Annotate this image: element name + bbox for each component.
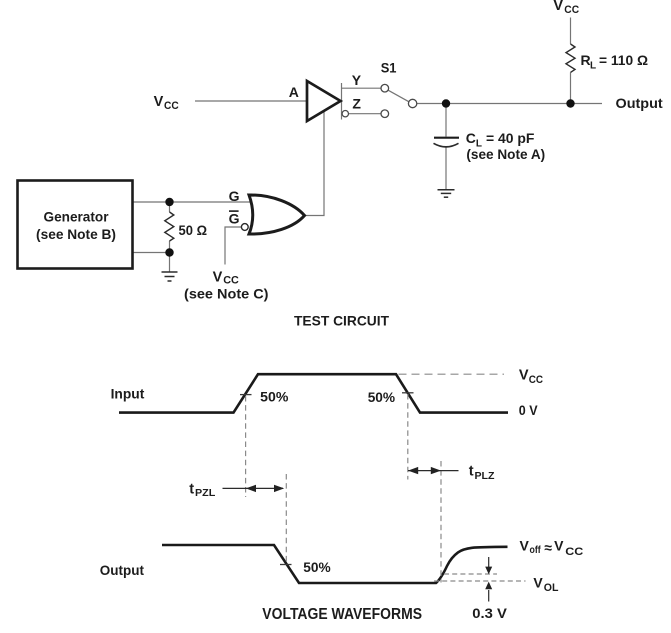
svg-text:Output: Output bbox=[100, 562, 145, 578]
svg-text:Input: Input bbox=[111, 385, 145, 401]
svg-text:V: V bbox=[519, 368, 529, 384]
svg-text:0 V: 0 V bbox=[519, 402, 538, 418]
svg-text:50%: 50% bbox=[368, 389, 396, 405]
svg-text:CC: CC bbox=[529, 374, 543, 386]
svg-text:Y: Y bbox=[352, 72, 362, 88]
svg-text:= 110 Ω: = 110 Ω bbox=[599, 52, 648, 68]
svg-text:CC: CC bbox=[565, 546, 583, 558]
svg-text:50 Ω: 50 Ω bbox=[179, 222, 208, 238]
svg-text:(see Note B): (see Note B) bbox=[36, 226, 116, 242]
svg-text:V: V bbox=[154, 94, 164, 110]
svg-text:V: V bbox=[553, 0, 563, 14]
svg-text:TEST CIRCUIT: TEST CIRCUIT bbox=[294, 312, 389, 328]
svg-text:t: t bbox=[189, 481, 194, 497]
svg-text:V: V bbox=[520, 538, 530, 554]
svg-text:Generator: Generator bbox=[44, 209, 110, 225]
svg-text:VOLTAGE WAVEFORMS: VOLTAGE WAVEFORMS bbox=[262, 606, 422, 623]
svg-text:V: V bbox=[554, 538, 564, 554]
svg-text:OL: OL bbox=[544, 582, 559, 594]
svg-text:PLZ: PLZ bbox=[475, 471, 495, 482]
svg-text:L: L bbox=[590, 61, 596, 72]
svg-text:≈: ≈ bbox=[544, 539, 552, 555]
svg-text:PZL: PZL bbox=[195, 488, 215, 499]
svg-text:C: C bbox=[466, 130, 476, 146]
svg-text:t: t bbox=[469, 464, 474, 480]
svg-text:S1: S1 bbox=[381, 59, 397, 75]
svg-text:(see Note C): (see Note C) bbox=[184, 285, 269, 301]
svg-text:V: V bbox=[213, 269, 223, 285]
svg-text:(see Note A): (see Note A) bbox=[466, 146, 545, 162]
svg-text:= 40 pF: = 40 pF bbox=[486, 130, 535, 146]
svg-text:50%: 50% bbox=[260, 389, 289, 405]
svg-text:Output: Output bbox=[616, 95, 664, 111]
svg-text:G: G bbox=[229, 211, 240, 227]
svg-text:G: G bbox=[229, 188, 240, 204]
svg-text:V: V bbox=[533, 575, 543, 591]
svg-text:CC: CC bbox=[164, 100, 179, 112]
svg-text:Z: Z bbox=[352, 96, 361, 112]
svg-text:50%: 50% bbox=[303, 559, 331, 575]
svg-text:0.3 V: 0.3 V bbox=[472, 605, 507, 621]
svg-text:off: off bbox=[530, 544, 542, 556]
svg-text:CC: CC bbox=[564, 4, 579, 16]
svg-text:A: A bbox=[289, 84, 299, 100]
